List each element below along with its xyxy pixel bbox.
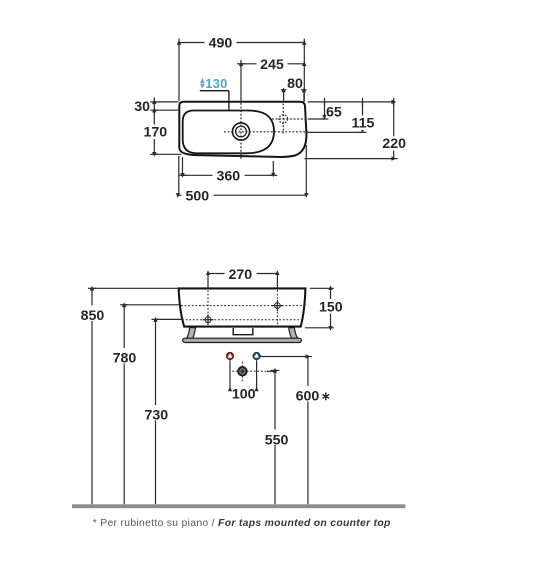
inner bowl outline [183,111,274,154]
dim 780 label [109,348,141,364]
svg-text:80: 80 [287,76,303,92]
solid link waste to 550 [267,370,275,372]
dim 115 label [348,116,379,131]
waste vertical centerline (dashed) [241,362,243,382]
dim 80 arrows [281,90,307,102]
dim 600* [304,357,312,505]
dim 65 [308,102,329,119]
drain vertical centerline (dashed) [240,103,242,161]
svg-text:850: 850 [81,308,105,324]
dim 500 [178,145,306,195]
right side reference top line [308,98,394,106]
dim 150 label [315,299,347,314]
fixing hole symbol right [272,300,283,311]
line from cold symbol to 600 dimension [261,356,308,358]
dim 170 label [141,125,171,140]
svg-text:150: 150 [319,299,343,315]
dim 100 [230,360,257,390]
basin body (front view) [179,288,306,326]
dim 220 label [379,136,411,151]
dim 115 [308,102,367,132]
fixing hole centerline lower (dashed) [182,319,300,321]
svg-text:360: 360 [216,168,240,184]
waste horizontal centerline (dashed) [232,370,269,372]
dim 490 label [205,36,237,51]
mounting rail bar [183,338,302,342]
dim 130 up-down arrow glyph [200,78,205,89]
basin outer outline (top view) [179,102,306,157]
fixing hole centerline upper (dashed) [181,305,303,307]
fixing hole symbol left [203,314,214,325]
waste outlet symbol [238,367,246,375]
svg-text:100: 100 [232,386,256,402]
svg-text:∗: ∗ [321,391,331,403]
fixing hole vertical centerline left (dashed) [207,290,209,326]
svg-text:490: 490 [209,36,233,52]
dim 850 [88,288,178,504]
dim 360 label [213,169,245,184]
svg-text:550: 550 [265,432,289,448]
svg-text:170: 170 [143,125,167,141]
dim 550 [271,370,280,504]
faucet vertical centerline (dashed) [282,104,284,134]
drain hole inner circle [236,126,247,137]
faucet hole (dashed circle) [279,115,288,124]
svg-text:780: 780 [113,350,137,366]
svg-text:270: 270 [228,267,252,283]
overflow slot [233,328,253,335]
svg-text:65: 65 [326,105,342,121]
dim 500 label [182,189,214,204]
dim 730 [152,319,183,504]
fixing hole vertical centerline right (dashed) [276,290,278,326]
dim 130 leader line [200,90,229,92]
svg-text:30: 30 [134,99,150,115]
hot water symbol (red) [227,353,234,360]
dim 220 [390,102,398,159]
svg-text:600: 600 [296,389,320,405]
drain horizontal centerline (dashed) [224,131,308,133]
dim 550 label [260,430,293,446]
dim 150 [305,288,334,328]
faucet horizontal centerline (dashed) [272,118,308,120]
dim 245 line [237,60,304,103]
dim 30 [150,98,180,115]
svg-text:245: 245 [260,57,284,73]
svg-text:220: 220 [382,136,406,152]
dim 780 [120,305,179,505]
dim 490 line [179,39,304,102]
cold water symbol (blue) [253,353,260,360]
svg-text:115: 115 [352,116,375,132]
dim 360 [179,157,278,175]
bottom reference line right side [305,158,394,160]
svg-text:730: 730 [144,408,168,424]
right mounting leg [289,328,298,339]
dim 850 label [77,306,109,322]
svg-text:500: 500 [185,188,209,204]
dim 600 label [292,386,332,402]
dim 170 [150,110,181,154]
svg-text:* Per rubinetto su piano / For: * Per rubinetto su piano / For taps moun… [93,518,391,529]
dim 730 label [140,405,173,421]
floor line [72,504,405,508]
dim 270 label [225,267,257,282]
drain hole outer circle [232,123,249,140]
dim 270 [208,271,277,288]
dim 245 label [257,57,288,72]
svg-text:130: 130 [205,76,227,91]
left mounting leg [187,328,196,339]
